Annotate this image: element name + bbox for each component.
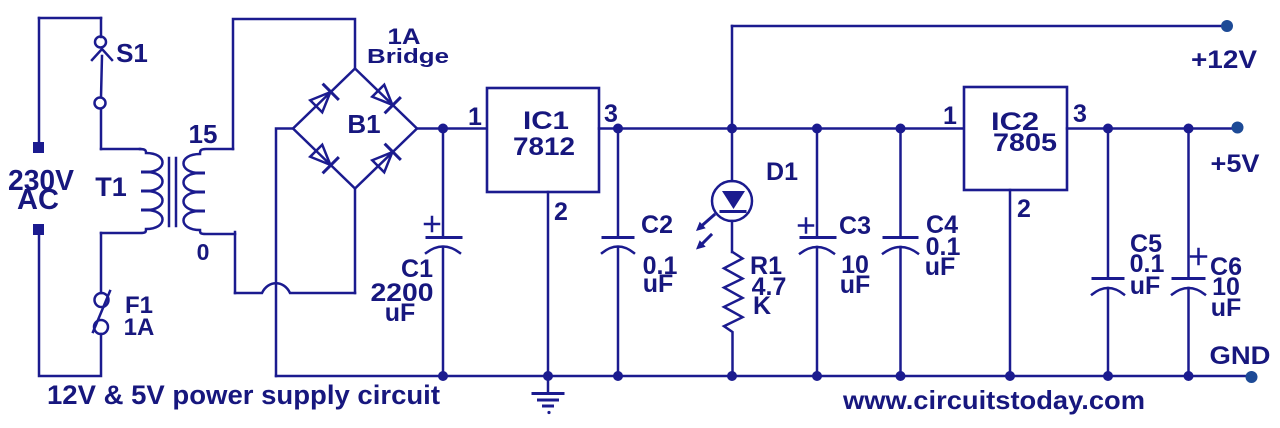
diode D-UR (anode top vertex, cathode right vertex)	[371, 84, 400, 113]
C3 plus sign	[799, 219, 813, 233]
svg-text:3: 3	[604, 100, 618, 128]
svg-text:AC: AC	[17, 184, 59, 216]
transformer T1 core	[169, 158, 176, 226]
C6 plus sign	[1191, 249, 1206, 264]
bridge rectifier B1 diamond	[293, 69, 417, 189]
ground bus	[276, 375, 1252, 378]
node: C3 junction	[812, 124, 822, 134]
diode D-LL (anode left vertex, cathode bottom vertex)	[309, 144, 338, 173]
IC1 7812 box	[487, 88, 599, 192]
wire: AC source left vertical top	[38, 18, 41, 141]
svg-text:7812: 7812	[513, 133, 575, 161]
capacitor C5 0.1uF	[1092, 129, 1124, 377]
node: IC2 ground junction	[1005, 371, 1015, 381]
LED D1	[712, 129, 752, 253]
svg-text:C2: C2	[641, 211, 673, 239]
svg-text:GND: GND	[1210, 342, 1271, 370]
svg-text:12V & 5V power supply circuit: 12V & 5V power supply circuit	[47, 380, 440, 410]
transformer T1 secondary winding	[184, 149, 236, 234]
svg-text:T1: T1	[95, 172, 127, 202]
svg-text:uF: uF	[1130, 272, 1161, 300]
svg-text:uF: uF	[643, 270, 674, 298]
node: C6 ground junction	[1184, 371, 1194, 381]
wire: fuse to transformer primary bottom	[100, 233, 103, 293]
C1 plus sign	[425, 217, 439, 231]
node: C4 ground junction	[896, 371, 906, 381]
svg-text:K: K	[753, 292, 771, 320]
wire: IC2 pin 2 to ground	[1009, 190, 1012, 376]
wire: 0 wire to bridge bottom with hop over ground wire	[235, 283, 355, 293]
svg-text:2: 2	[554, 198, 568, 226]
node: C4 junction	[896, 124, 906, 134]
wire: secondary 0 down	[234, 232, 237, 293]
diode D-LR (anode bottom vertex, cathode right vertex)	[371, 145, 400, 174]
diode D-UL (anode left vertex, cathode top vertex)	[309, 85, 338, 114]
svg-text:C3: C3	[839, 212, 871, 240]
switch S1	[92, 37, 112, 109]
svg-text:1: 1	[943, 102, 957, 130]
capacitor C4 0.1uF	[883, 129, 918, 377]
transformer T1 secondary winding stubs	[192, 173, 204, 211]
wire: bridge positive output to IC1 pin 1	[417, 127, 487, 130]
svg-text:2: 2	[1017, 195, 1031, 223]
svg-text:Bridge: Bridge	[367, 46, 449, 68]
svg-text:D1: D1	[766, 158, 798, 186]
+12V terminal	[1221, 20, 1233, 32]
svg-text:0: 0	[197, 239, 210, 265]
svg-text:7805: 7805	[993, 129, 1057, 157]
+5V terminal	[1232, 122, 1244, 134]
node: C1 ground junction	[438, 371, 448, 381]
ground symbol	[533, 376, 563, 414]
svg-text:uF: uF	[1211, 294, 1242, 322]
wire: switch to transformer primary top	[100, 109, 103, 149]
node: IC1 ground junction	[543, 371, 553, 381]
wire: +12V rail top horizontal	[732, 25, 1222, 28]
node: C6 junction	[1184, 124, 1194, 134]
svg-text:uF: uF	[925, 253, 956, 281]
wire: bridge bottom vertex down	[354, 189, 357, 294]
svg-text:www.circuitstoday.com: www.circuitstoday.com	[842, 385, 1145, 415]
capacitor C1 2200uF	[426, 129, 461, 377]
wire: AC source left vertical bottom	[39, 236, 101, 376]
node: C5 ground junction	[1103, 371, 1113, 381]
node: C3 ground junction	[812, 371, 822, 381]
GND terminal	[1246, 371, 1258, 383]
wire: IC2 pin 3 output rail	[1067, 127, 1232, 130]
resistor R1 4.7K	[724, 252, 743, 376]
svg-text:1A: 1A	[124, 314, 155, 341]
LED D1 emission arrows	[696, 215, 714, 250]
capacitor C2 0.1uF	[602, 129, 634, 377]
transformer T1 primary winding	[101, 149, 163, 233]
wire: switch top lead	[100, 18, 103, 37]
wire: +12V takeoff vertical	[731, 26, 734, 129]
230V AC source terminal top (square)	[33, 142, 44, 153]
svg-text:IC1: IC1	[523, 107, 569, 135]
svg-text:uF: uF	[385, 299, 416, 327]
svg-text:1: 1	[468, 103, 482, 131]
node: D1 junction	[727, 124, 737, 134]
fuse F1	[93, 291, 110, 334]
node: R1 ground junction	[727, 371, 737, 381]
wire: bridge negative output to ground bus	[276, 129, 293, 377]
svg-text:+12V: +12V	[1191, 46, 1257, 74]
svg-text:+5V: +5V	[1211, 150, 1260, 178]
svg-text:uF: uF	[840, 271, 871, 299]
wire: secondary 15 up and over to bridge top	[233, 19, 355, 149]
svg-text:B1: B1	[347, 109, 380, 139]
node: C2 junction	[613, 124, 623, 134]
svg-text:3: 3	[1073, 100, 1087, 128]
svg-text:15: 15	[189, 119, 218, 149]
230V AC source terminal bottom (square)	[33, 224, 44, 235]
wire: primary top horizontal	[101, 148, 140, 151]
transformer T1 primary winding stubs	[143, 172, 155, 210]
wire: IC1 pin 3 rail to IC2 pin 1	[599, 127, 964, 130]
wire: AC loop top horizontal	[39, 17, 101, 20]
IC2 7805 box	[964, 87, 1067, 190]
capacitor C6 10uF	[1172, 129, 1205, 377]
wire: IC1 pin 2 to ground	[547, 192, 550, 376]
svg-text:S1: S1	[116, 38, 148, 68]
node: C1 junction	[438, 124, 448, 134]
capacitor C3 10uF	[800, 129, 835, 377]
node: C5 junction	[1103, 124, 1113, 134]
node: C2 ground junction	[613, 371, 623, 381]
